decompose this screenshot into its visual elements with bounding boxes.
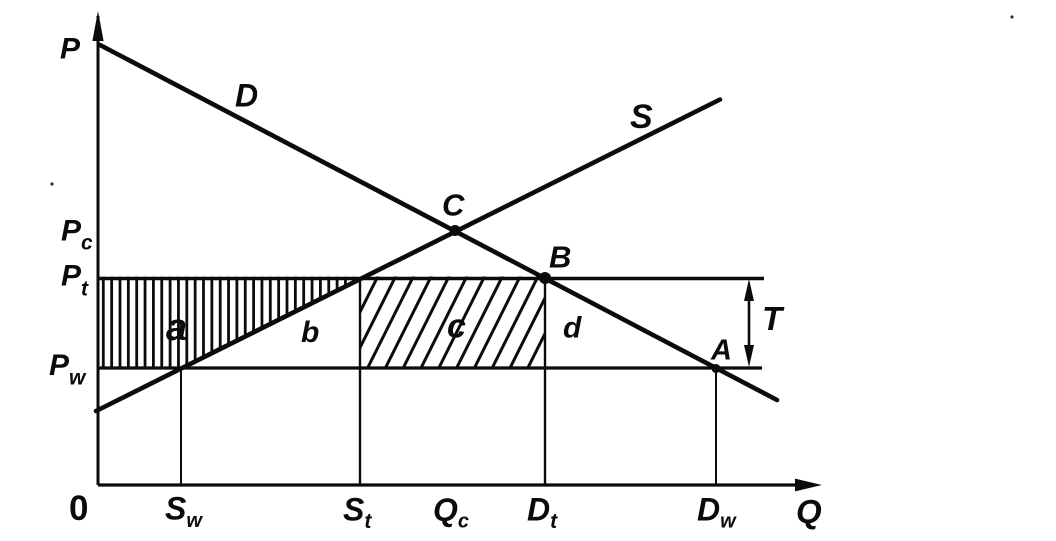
svg-text:0: 0: [69, 489, 88, 528]
demand curve D: [100, 45, 777, 400]
svg-text:Qc: Qc: [433, 492, 469, 533]
svg-text:T: T: [762, 300, 785, 337]
svg-text:St: St: [343, 491, 372, 533]
svg-text:D: D: [235, 77, 258, 113]
y-axis (P axis) with arrowhead: [92, 11, 103, 485]
vertical quantity line at D_t: [544, 278, 546, 485]
point A (demand at world price P_w): [712, 364, 721, 373]
horizontal price line P_w: [98, 366, 762, 369]
svg-text:Pt: Pt: [61, 260, 89, 301]
svg-text:Sw: Sw: [165, 490, 203, 532]
svg-text:P: P: [60, 33, 81, 66]
scan speck (paper noise): [1010, 15, 1013, 18]
svg-text:C: C: [442, 188, 465, 223]
x-axis (Q axis) with arrowhead: [98, 479, 822, 492]
horizontal price line P_t: [98, 277, 764, 280]
scan speck (paper noise): [50, 182, 53, 185]
svg-text:b: b: [301, 316, 319, 349]
svg-text:d: d: [563, 312, 582, 345]
supply curve S: [96, 100, 720, 412]
vertical quantity line at S_t: [359, 278, 361, 485]
svg-text:S: S: [630, 98, 653, 136]
region a: vertical-hatched welfare trapezoid between P_t, P_w, y-axis and S: [103, 275, 362, 371]
svg-text:Dt: Dt: [527, 491, 558, 533]
vertical quantity line at S_w: [180, 368, 182, 485]
svg-text:A: A: [710, 335, 732, 367]
svg-text:a: a: [166, 307, 187, 349]
svg-text:Pw: Pw: [49, 349, 87, 390]
svg-text:c: c: [447, 308, 466, 346]
svg-text:B: B: [549, 240, 571, 275]
point C (domestic equilibrium): [450, 225, 461, 236]
vertical quantity line at D_w: [715, 368, 717, 485]
svg-text:Q: Q: [796, 493, 822, 530]
point B (demand at tariff price P_t): [539, 272, 551, 284]
double-headed tariff arrow T between P_t and P_w: [744, 279, 754, 367]
svg-text:Dw: Dw: [697, 491, 737, 532]
svg-text:Pc: Pc: [61, 215, 93, 255]
region c: diagonal-hatched tariff-revenue rectangle between S_t and D_t, P_t and P_w: [330, 274, 593, 372]
